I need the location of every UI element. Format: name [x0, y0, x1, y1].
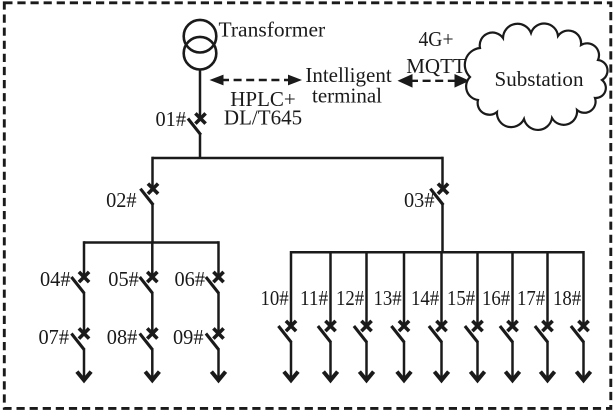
- wire: switch 02# to left sub-bus: [151, 204, 154, 243]
- wire: right sub-bus down to switch 11#: [329, 251, 332, 324]
- breaker switch 10# : blade: [278, 326, 291, 342]
- wire: main horizontal bus: [153, 157, 443, 160]
- breaker switch 03# : blade: [430, 189, 443, 205]
- wire: right sub-bus down to switch 17#: [546, 251, 549, 324]
- svg-text:11#: 11#: [300, 286, 328, 310]
- breaker switch 13# : X contact mark: [399, 321, 409, 331]
- wire: switch 03# to right sub-bus: [441, 204, 444, 253]
- wire: right sub-bus down to switch 13#: [403, 251, 406, 324]
- feeder arrow below 09#: [211, 372, 225, 381]
- wire: main bus down to switch 03#: [441, 157, 444, 187]
- breaker switch 11# : blade: [318, 326, 331, 342]
- wire: right sub-bus down to switch 15#: [476, 251, 479, 324]
- breaker switch 08# : X contact mark: [147, 328, 157, 338]
- wire: switch 01# to main bus: [199, 134, 202, 159]
- svg-text:05#: 05#: [108, 267, 139, 291]
- svg-text:Transformer: Transformer: [219, 18, 326, 42]
- breaker switch 04# : X contact mark: [79, 272, 89, 282]
- svg-text:17#: 17#: [517, 286, 545, 310]
- wire: switch 08# to feeder arrow: [151, 349, 154, 378]
- wire: right sub-bus down to switch 16#: [511, 251, 514, 324]
- wire: left sub-bus down to switch 05#: [151, 241, 154, 275]
- svg-text:09#: 09#: [173, 325, 204, 349]
- svg-text:01#: 01#: [156, 107, 187, 131]
- wire: switch 10# to feeder arrow: [290, 341, 293, 378]
- breaker switch 10# : X contact mark: [286, 321, 296, 331]
- transformer T1 (two overlapping circles): [184, 20, 217, 70]
- wire: right sub-bus down to switch 18#: [582, 251, 585, 324]
- wire: switch 12# to feeder arrow: [365, 341, 368, 378]
- svg-text:02#: 02#: [106, 188, 137, 212]
- feeder arrow below 11#: [323, 372, 337, 381]
- breaker switch 17# : blade: [535, 326, 548, 342]
- wire: right sub-bus down to switch 12#: [365, 251, 368, 324]
- svg-text:16#: 16#: [482, 286, 510, 310]
- feeder arrow below 15#: [470, 372, 484, 381]
- breaker switch 16# : X contact mark: [507, 321, 517, 331]
- breaker switch 09# : X contact mark: [213, 328, 223, 338]
- breaker switch 18# : X contact mark: [578, 321, 588, 331]
- breaker switch 14# : X contact mark: [436, 321, 446, 331]
- svg-text:06#: 06#: [175, 267, 206, 291]
- breaker switch 06# : X contact mark: [213, 272, 223, 282]
- feeder arrow below 13#: [397, 372, 411, 381]
- breaker switch 12# : X contact mark: [361, 321, 371, 331]
- breaker switch 08# : blade: [140, 334, 153, 350]
- svg-text:DL/T645: DL/T645: [224, 106, 302, 130]
- breaker switch 07# : blade: [71, 334, 84, 350]
- wire: switch 09# to feeder arrow: [217, 349, 220, 378]
- breaker switch 15# : blade: [465, 326, 478, 342]
- feeder arrow below 07#: [77, 372, 91, 381]
- breaker switch 03# : X contact mark: [438, 184, 448, 194]
- wire: switch 07# to feeder arrow: [83, 349, 86, 378]
- feeder arrow below 14#: [434, 372, 448, 381]
- feeder arrow below 16#: [505, 372, 519, 381]
- feeder arrow below 18#: [576, 372, 590, 381]
- breaker switch 15# : X contact mark: [472, 321, 482, 331]
- wire: switch 06# to switch 09#: [217, 292, 220, 332]
- wire: left sub-bus down to switch 04#: [83, 241, 86, 275]
- wire: switch 13# to feeder arrow: [403, 341, 406, 378]
- feeder arrow below 08#: [145, 372, 159, 381]
- svg-text:18#: 18#: [553, 286, 581, 310]
- svg-text:04#: 04#: [40, 267, 71, 291]
- wire: switch 14# to feeder arrow: [440, 341, 443, 378]
- wire: switch 11# to feeder arrow: [329, 341, 332, 378]
- svg-text:10#: 10#: [261, 286, 289, 310]
- breaker switch 06# : blade: [206, 277, 219, 293]
- breaker switch 02# : blade: [140, 189, 153, 205]
- svg-text:terminal: terminal: [312, 83, 382, 107]
- wire: transformer to switch 01#: [199, 70, 202, 117]
- dashed double arrow: 4G+MQTT link: [398, 74, 470, 88]
- wire: left sub-bus down to switch 06#: [217, 241, 220, 275]
- wire: switch 04# to switch 07#: [83, 292, 86, 332]
- wire: right sub-bus down to switch 10#: [290, 251, 293, 324]
- svg-text:15#: 15#: [447, 286, 475, 310]
- breaker switch 05# : blade: [140, 277, 153, 293]
- svg-text:4G+: 4G+: [419, 27, 454, 51]
- wire: switch 16# to feeder arrow: [511, 341, 514, 378]
- wire: switch 05# to switch 08#: [151, 292, 154, 332]
- breaker switch 11# : X contact mark: [325, 321, 335, 331]
- feeder arrow below 10#: [284, 372, 298, 381]
- breaker switch 16# : blade: [500, 326, 513, 342]
- wire: right sub-bus: [291, 251, 584, 254]
- breaker switch 05# : X contact mark: [147, 272, 157, 282]
- substation cloud: [465, 24, 608, 130]
- svg-text:12#: 12#: [336, 286, 364, 310]
- breaker switch 09# : blade: [206, 334, 219, 350]
- breaker switch 14# : blade: [429, 326, 442, 342]
- svg-text:08#: 08#: [107, 325, 138, 349]
- breaker switch 01# : blade: [188, 119, 201, 135]
- svg-text:13#: 13#: [374, 286, 402, 310]
- breaker switch 01# : X contact mark: [195, 113, 205, 123]
- feeder arrow below 12#: [359, 372, 373, 381]
- wire: left sub-bus: [84, 241, 219, 244]
- svg-text:MQTT: MQTT: [406, 54, 466, 78]
- wire: right sub-bus down to switch 14#: [440, 251, 443, 324]
- wire: main bus down to switch 02#: [151, 157, 154, 187]
- svg-text:07#: 07#: [39, 325, 70, 349]
- breaker switch 13# : blade: [391, 326, 404, 342]
- svg-text:14#: 14#: [411, 286, 439, 310]
- dashed double arrow: HPLC+DL/T645 link: [210, 75, 303, 86]
- breaker switch 04# : blade: [71, 277, 84, 293]
- svg-text:Substation: Substation: [495, 67, 584, 91]
- breaker switch 12# : blade: [354, 326, 367, 342]
- breaker switch 07# : X contact mark: [79, 328, 89, 338]
- breaker switch 02# : X contact mark: [148, 184, 158, 194]
- breaker switch 18# : blade: [571, 326, 584, 342]
- breaker switch 17# : X contact mark: [542, 321, 552, 331]
- wire: switch 17# to feeder arrow: [546, 341, 549, 378]
- svg-text:03#: 03#: [404, 188, 435, 212]
- feeder arrow below 17#: [540, 372, 554, 381]
- wire: switch 18# to feeder arrow: [582, 341, 585, 378]
- wire: switch 15# to feeder arrow: [476, 341, 479, 378]
